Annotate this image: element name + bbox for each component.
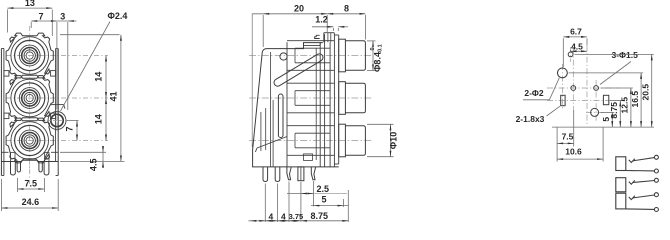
front jack 1 concentric circles (11, 37, 49, 75)
front left mounting plate (1, 49, 4, 176)
dimension 20.5 (footprint row height) (575, 54, 654, 127)
centerline through H2 (572, 48, 574, 110)
front bottom flange (1, 152, 58, 161)
svg-text:12.5: 12.5 (620, 97, 630, 114)
label 3-phi1.5 with leader (600, 50, 638, 85)
schematic jack 1 switch terminal (654, 155, 658, 159)
dimension 14 (jack2-jack3) (94, 98, 108, 141)
dimension 12.5 (footprint row height) (601, 88, 633, 127)
dimension 4.5 (flange height) (60, 146, 106, 171)
svg-text:20: 20 (294, 3, 304, 13)
svg-text:3-Φ1.5: 3-Φ1.5 (612, 50, 639, 60)
side view jack centerline (249, 140, 373, 142)
front view vertical centerline (29, 26, 31, 184)
dimension 7 (peg to jack3 vertical) (65, 121, 79, 141)
dimension 7.5 (front pin spacing) (18, 178, 45, 192)
svg-text:0: 0 (370, 47, 376, 50)
dimension 7 (jack center to peg) (31, 11, 76, 109)
schematic jack 3 switch terminal (654, 193, 658, 197)
svg-text:41: 41 (109, 91, 119, 101)
svg-text:4.5: 4.5 (89, 159, 99, 172)
footprint vertical axis (586, 45, 588, 126)
front housing gear cell jack 3 (6, 118, 53, 163)
dimension phi10 (collar dia) (367, 124, 399, 156)
side barrel jack 3 (339, 124, 366, 157)
side bracket plate outline (253, 43, 323, 167)
jack centerline (6, 140, 108, 142)
svg-text:3: 3 (60, 11, 65, 21)
dimension 24.6 (front overall width) (1, 179, 58, 211)
label phi2.4 with leader (61, 11, 128, 111)
side pin 4 (298, 167, 304, 181)
centerline through H3 (595, 80, 597, 122)
front peg phi2.4 (47, 105, 67, 131)
side left extension line (251, 14, 253, 148)
schematic jack 3 ground line and terminal (626, 208, 659, 212)
front pin 2 outer prong (44, 162, 49, 176)
side bracket vertical slot (278, 94, 283, 138)
schematic jack 3 switch contact (629, 195, 655, 200)
svg-text:2.5: 2.5 (317, 184, 330, 194)
side pin 5 (claw) (311, 167, 315, 180)
front jack 3 concentric circles (11, 122, 49, 160)
side mounting panel (320, 34, 339, 167)
schematic jack 2 switch terminal (654, 178, 658, 182)
side bracket inner line (270, 52, 272, 167)
svg-text:20.5: 20.5 (640, 84, 650, 101)
svg-text:10.6: 10.6 (565, 146, 582, 156)
hole phi2 bottom (591, 108, 599, 116)
svg-text:Φ10: Φ10 (389, 132, 399, 149)
schematic jack 2 switch contact (629, 180, 655, 184)
svg-text:24.6: 24.6 (22, 197, 40, 207)
svg-text:8.75: 8.75 (609, 102, 619, 119)
svg-text:8.75: 8.75 (311, 211, 329, 221)
side view jack centerline (249, 97, 373, 99)
schematic jack 1 body (616, 157, 626, 171)
dimension 5 (pin5 to barrel) (311, 195, 348, 207)
hole phi2 left (558, 68, 568, 78)
schematic jack 1 ground line and terminal (626, 169, 659, 173)
svg-text:4: 4 (269, 211, 274, 221)
svg-text:14: 14 (94, 114, 104, 124)
dimension phi8.4 tolerance (barrel tip dia) (367, 41, 384, 72)
hole phi1.5 mid-left (H2) (571, 86, 576, 91)
footprint slots centerline (547, 99, 619, 101)
dimension 14 (jack1-jack2) (94, 56, 108, 99)
dimension 4.5 (footprint) (571, 41, 588, 52)
svg-text:8: 8 (344, 3, 349, 13)
slot 1.8x3 left (561, 95, 565, 105)
side barrel jack 1 (339, 39, 366, 72)
centerline through phi2 hole (561, 64, 563, 110)
svg-text:3.75: 3.75 (289, 212, 304, 221)
svg-text:16.5: 16.5 (630, 91, 640, 108)
slot 1.8x3 right (603, 95, 608, 104)
svg-text:-0.1: -0.1 (378, 44, 384, 53)
schematic jack 1 switch contact (629, 158, 655, 163)
dimension 16.5 (footprint row height) (569, 73, 644, 127)
plate slot left (4, 71, 9, 77)
dimension 20 (side depth) (252, 3, 327, 47)
dimension 1.2 (tab width) (312, 14, 348, 31)
front pins dotted centerline (29, 163, 31, 172)
side top tabs (304, 33, 339, 46)
side bracket inner line 4 (260, 112, 262, 151)
svg-text:5: 5 (321, 195, 326, 205)
side bracket inner line 2 (265, 108, 267, 150)
side pin 3 (claw) (287, 167, 291, 180)
svg-text:6.7: 6.7 (570, 26, 582, 36)
plate slot left (4, 113, 9, 119)
schematic jack 3 body (616, 193, 626, 209)
svg-text:Φ2.4: Φ2.4 (108, 11, 128, 21)
dimension 13 (front top width) (7, 0, 52, 36)
centerline through H1 (570, 47, 572, 62)
svg-text:4: 4 (281, 211, 286, 221)
dimension 6.7 (563, 26, 587, 67)
hole phi1.5 mid-right (H3) (594, 86, 599, 91)
front pin 1 inner prong (17, 162, 20, 173)
svg-text:4.5: 4.5 (571, 41, 583, 51)
side pin 2 (275, 167, 280, 182)
side barrel jack 2 (339, 82, 366, 115)
footprint base reference line (552, 126, 654, 128)
label 2-1.8x3 with leader (516, 106, 560, 124)
side bracket diagonal slot (273, 52, 325, 87)
plate slot right (51, 113, 56, 119)
side pin 1 (263, 167, 268, 182)
front pin 1 outer prong (11, 162, 16, 176)
dimension chain 4 / 4 / 3.75 / 8.75 (side pins) (249, 182, 349, 223)
svg-text:2-Φ2: 2-Φ2 (524, 88, 544, 98)
jack centerline (6, 97, 108, 99)
side bracket inner line 3 (272, 100, 274, 167)
svg-text:7.5: 7.5 (25, 178, 38, 188)
schematic jack 2 body (616, 178, 626, 192)
dimension 8.75 (footprint row height) (609, 100, 622, 127)
svg-text:1.2: 1.2 (315, 14, 328, 24)
dimension 10.6 (footprint) (557, 127, 603, 161)
front right mounting plate (56, 49, 59, 176)
svg-text:13: 13 (25, 0, 35, 8)
front pin 2 inner prong (39, 162, 42, 173)
svg-text:7.5: 7.5 (562, 132, 574, 142)
svg-text:2-1.8x3: 2-1.8x3 (516, 114, 545, 124)
dimension 5 (footprint row height) (601, 112, 615, 127)
hole phi1.5 top (H1) (568, 52, 573, 57)
dimension 41 (front overall height) (60, 35, 125, 162)
side bracket screw hole (280, 53, 287, 60)
front jack 2 concentric circles (11, 79, 49, 117)
dimension 2.5 (pin4-pin5) (287, 181, 347, 222)
svg-text:7: 7 (38, 11, 43, 21)
dimension 8 (barrel length) (327, 3, 365, 39)
svg-text:Φ8.4: Φ8.4 (373, 52, 383, 72)
front flange pin root right (45, 153, 49, 162)
footprint horizontal centerline (547, 87, 620, 89)
centerline bottom phi2 (586, 111, 604, 113)
svg-text:7: 7 (65, 126, 75, 131)
side view jack centerline (249, 55, 373, 57)
plate slot right (51, 71, 56, 77)
front housing gear cell jack 2 (6, 76, 53, 121)
dimension 7.5 (footprint) (557, 110, 574, 162)
front housing gear cell jack 1 (6, 33, 53, 78)
label 2-phi2 with leader (523, 78, 559, 100)
svg-text:14: 14 (94, 72, 104, 82)
front flange pin root left (11, 153, 15, 162)
jack centerline (6, 55, 108, 57)
side housing body (287, 41, 339, 167)
dimension 3 (peg to plate) (60, 11, 74, 110)
